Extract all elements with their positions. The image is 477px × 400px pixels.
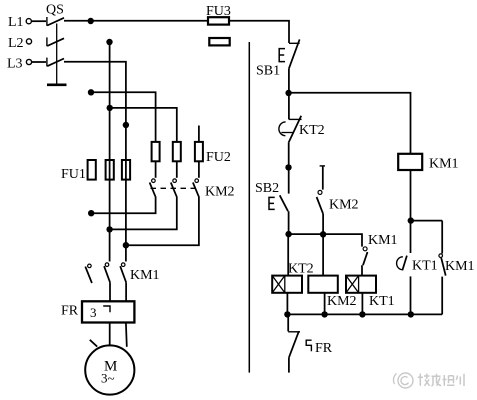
wire KM2 aux bottom — [322, 214, 324, 235]
fuse FU2 body 3 — [195, 142, 203, 161]
junction dot phase1 to FU2 branch1 — [88, 89, 94, 95]
junction dot phase3 — [123, 122, 129, 128]
wire QS pole1 to FU3 — [64, 20, 208, 22]
thermal relay FR heater box — [82, 301, 134, 322]
junction dot KM2 aux bottom — [320, 231, 326, 237]
contactor KM2 coil — [308, 276, 338, 293]
junction dot bottom right — [408, 311, 414, 317]
wire KM1-2 to FR — [109, 282, 111, 301]
wire SB2 bottom — [288, 211, 290, 234]
wire KT1 contact to bottom rail — [410, 276, 412, 314]
junction dot SB1 output — [285, 90, 291, 96]
pushbutton SB1 blade — [289, 39, 300, 68]
wire bottom rail to FR contact — [287, 314, 289, 331]
wire FU2-2 to KM2 contact 2 — [176, 161, 178, 178]
watermark logo — [393, 373, 413, 388]
wire phase2 to FU2 branch2 — [110, 108, 177, 142]
svg-text:SB1: SB1 — [256, 64, 280, 79]
junction dot KT2 coil bottom — [284, 311, 290, 317]
svg-text:KM1: KM1 — [429, 156, 459, 171]
svg-text:KM2: KM2 — [329, 198, 359, 213]
wire FR to motor lead 2 — [109, 323, 111, 347]
switch QS pole 3 — [47, 58, 64, 67]
thermal relay FR NC contact — [288, 331, 311, 357]
terminal L2 — [26, 39, 31, 44]
wire KT1 coil to bottom rail — [361, 293, 363, 315]
wire FR contact bottom — [288, 358, 290, 373]
wire FU2-1 to KM2 contact 1 — [155, 161, 157, 178]
contactor KM1 main contact 2 — [104, 263, 110, 282]
fuse FU1 body 2 — [106, 160, 114, 180]
wire KM1 aux2 bottom — [441, 277, 443, 315]
time relay KT1 coil — [346, 276, 376, 293]
wire stub FU2 branch3 — [198, 126, 200, 142]
contactor KM1 main contact 3 — [120, 263, 126, 282]
wire junction row to KM1 aux — [289, 234, 362, 247]
terminal L1 — [26, 19, 31, 24]
fuse FU1 body 3 — [122, 160, 130, 180]
wire SB1 output to KM1 coil — [289, 93, 411, 154]
time relay KT2 NC delayed contact — [279, 116, 302, 143]
wire FU2-3 to KM2 contact 3 — [198, 161, 200, 178]
svg-text:KT1: KT1 — [369, 294, 395, 309]
fuse FU3 body 2 — [209, 38, 229, 45]
time relay KT1 NO delayed contact — [397, 256, 407, 271]
svg-text:KT1: KT1 — [412, 259, 438, 274]
terminal L3 — [26, 59, 31, 64]
wire L2 bus vertical — [109, 42, 111, 262]
fuse FU1 body 1 — [88, 160, 96, 180]
contactor KM1 aux2 NO contact — [439, 254, 446, 276]
junction dot KM1 branch — [408, 217, 414, 223]
svg-text:3~: 3~ — [101, 371, 115, 386]
wire KM2 aux contact top — [322, 166, 324, 190]
junction dot L2 bus — [106, 39, 112, 45]
wire KM2 coil to bottom rail — [324, 293, 326, 315]
svg-text:KM2: KM2 — [327, 294, 357, 309]
svg-text:KM1: KM1 — [130, 268, 160, 283]
wire motor lead 1 stub — [90, 340, 97, 347]
svg-text:FU2: FU2 — [206, 150, 231, 165]
svg-text:QS: QS — [46, 3, 64, 18]
wire control left rail — [248, 42, 250, 373]
wire L3 bus — [64, 62, 126, 262]
svg-text:FU1: FU1 — [61, 167, 86, 182]
svg-text:KM2: KM2 — [205, 185, 235, 200]
junction dot KM2 coil bottom — [321, 311, 327, 317]
fuse FU3 body 1 — [208, 17, 229, 24]
contactor KM2 aux NO contact — [317, 190, 324, 213]
time relay KT2 coil — [272, 276, 302, 293]
wire KT2 coil to bottom rail — [286, 293, 288, 315]
wire L1 to QS — [32, 20, 47, 22]
svg-text:FR: FR — [315, 341, 333, 356]
switch QS linkage — [47, 24, 67, 85]
junction dot KT1 coil bottom — [359, 311, 365, 317]
wire FR to motor lead 3 — [125, 323, 128, 347]
junction dot L1 bus — [88, 18, 94, 24]
pushbutton SB1 seat — [289, 42, 300, 44]
fuse FU2 body 2 — [173, 142, 181, 161]
pushbutton SB2 blade — [280, 195, 288, 211]
wire bottom rail — [287, 313, 442, 315]
svg-text:KT2: KT2 — [288, 262, 314, 277]
switch QS pole 1 — [47, 17, 64, 26]
wire SB2 bottom to KT2 coil — [287, 234, 289, 276]
junction dot KM2-1 to bus1 — [88, 210, 94, 216]
contactor KM2 main contact 1 — [150, 179, 156, 197]
svg-text:KM1: KM1 — [445, 259, 475, 274]
contactor KM2 main contact 2 — [171, 179, 177, 197]
wire KM1 branch to KM1 aux2 branch — [411, 220, 442, 222]
svg-text:3: 3 — [90, 305, 97, 320]
junction dot KM2-3 to bus3 — [123, 242, 129, 248]
svg-text:KM1: KM1 — [368, 233, 398, 248]
wire KT2 contact to SB2 — [288, 143, 290, 194]
pushbutton SB1 cap — [279, 49, 285, 62]
pushbutton SB2 cap — [269, 197, 275, 209]
contactor KM2 aux contact top tick — [320, 165, 325, 167]
svg-text:SB2: SB2 — [255, 181, 279, 196]
wire KM1 coil down branch — [410, 170, 412, 253]
watermark text — [418, 374, 464, 387]
switch QS pole 2 — [47, 37, 64, 46]
wire KM1 aux2 branch top — [441, 221, 443, 254]
junction dot SB2 top — [285, 164, 291, 170]
wire KM2 coil top — [322, 234, 324, 275]
wire KM1-3 to FR — [125, 282, 127, 301]
motor M body — [85, 345, 134, 394]
wire phase1 to FU2 branch1 — [91, 92, 156, 142]
wire KM2 contact1 bottom to bus1 — [91, 196, 155, 213]
junction dot phase2 to FU2 branch2 — [107, 105, 113, 111]
contactor KM1 coil — [398, 154, 422, 170]
thermal relay FR heater jog — [103, 306, 110, 312]
junction dot KM2-2 to bus2 — [106, 226, 112, 232]
svg-text:KT2: KT2 — [299, 123, 325, 138]
wire KM2 contact2 bottom to bus2 — [110, 196, 177, 229]
fuse FU2 body 1 — [152, 142, 160, 161]
wire L3 to QS — [32, 61, 46, 63]
wire FU3 to control circuit corner — [229, 21, 289, 43]
svg-text:FR: FR — [61, 304, 79, 319]
contactor KM1 aux NO contact — [363, 247, 368, 265]
svg-text:L3: L3 — [7, 57, 23, 72]
wire KM2 contact3 bottom to bus3 — [126, 196, 199, 245]
svg-text:L2: L2 — [8, 36, 24, 51]
contactor KM2 linkage — [151, 187, 198, 189]
contactor KM1 main contact 1 — [85, 264, 92, 283]
junction dot SB2 bottom — [285, 231, 291, 237]
svg-text:L1: L1 — [8, 15, 24, 30]
wire KM1 aux to KT1 coil — [361, 265, 363, 275]
contactor KM2 main contact 3 — [193, 179, 199, 197]
wire SB1 to KT2 contact — [288, 69, 290, 120]
